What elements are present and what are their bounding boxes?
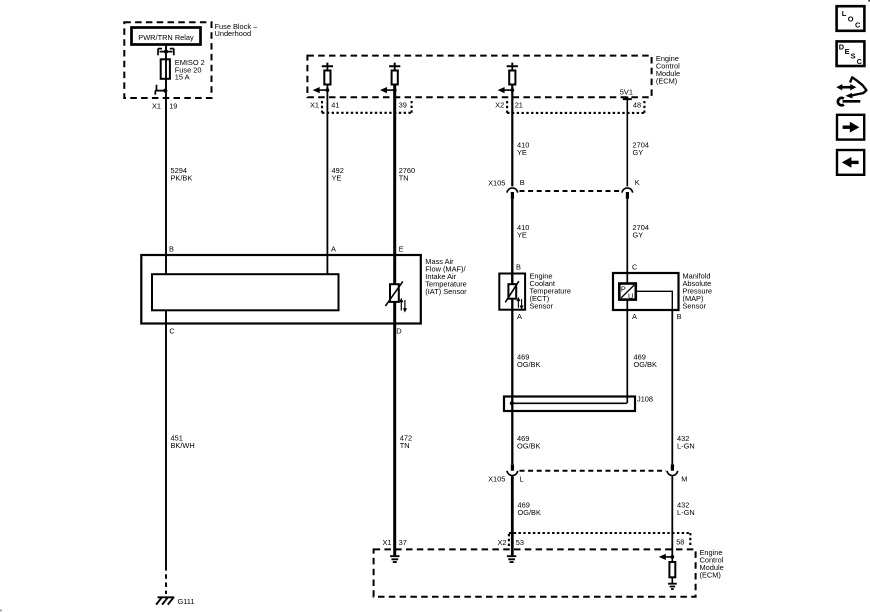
- svg-text:GY: GY: [633, 231, 644, 240]
- nav button back: [837, 150, 864, 175]
- wire 410 YE upper: [511, 85, 513, 187]
- svg-text:39: 39: [399, 101, 407, 110]
- ground at pin 37: [390, 556, 399, 562]
- svg-text:A: A: [331, 245, 336, 254]
- dashed line X105 lower: [520, 470, 667, 472]
- svg-text:X1: X1: [152, 101, 161, 110]
- svg-text:YE: YE: [332, 174, 342, 183]
- MAP sensor box: [613, 273, 679, 310]
- svg-text:M: M: [681, 475, 687, 484]
- ECM arrow pin 39: [386, 89, 395, 91]
- svg-text:TN: TN: [399, 174, 409, 183]
- top ECM box: [307, 56, 651, 98]
- wire MAF C down: [165, 310, 167, 566]
- svg-text:OG/BK: OG/BK: [518, 508, 541, 517]
- svg-text:53: 53: [516, 538, 524, 547]
- dashed line X105 upper: [520, 190, 622, 192]
- arrow at pin 58: [665, 556, 673, 558]
- svg-text:B: B: [516, 262, 521, 271]
- svg-text:A: A: [632, 312, 637, 321]
- MAF inner element: [152, 274, 339, 310]
- svg-text:YE: YE: [517, 148, 527, 157]
- svg-text:B: B: [677, 312, 682, 321]
- ECM driver resistor pin 39: [389, 63, 400, 67]
- splice J168: [504, 397, 635, 412]
- svg-text:C: C: [169, 327, 175, 336]
- wire 2704 GY lower: [626, 199, 628, 284]
- svg-text:P: P: [621, 284, 626, 293]
- dashed wire to G111: [165, 566, 167, 594]
- relay terminal: [158, 49, 174, 56]
- fuse block box: [124, 22, 211, 98]
- svg-text:C: C: [857, 57, 863, 66]
- ECT sensor box: [499, 274, 525, 310]
- wire 2760 TN: [393, 85, 396, 285]
- nav button next: [837, 115, 864, 140]
- fuse EMISO 2: [161, 59, 170, 79]
- wire MAF D down 472 TN: [393, 302, 396, 556]
- wire MAP A down to J168: [626, 300, 628, 404]
- svg-text:OG/BK: OG/BK: [517, 360, 540, 369]
- nav button DESC: [837, 41, 865, 66]
- svg-text:K: K: [635, 178, 640, 187]
- svg-text:X2: X2: [497, 538, 506, 547]
- svg-text:L: L: [842, 9, 847, 18]
- svg-text:C: C: [632, 262, 638, 271]
- ECM internal resistor pin 58: [671, 557, 673, 562]
- connector terminal at fuse block exit: [155, 85, 165, 95]
- svg-text:B: B: [169, 245, 174, 254]
- svg-text:L-GN: L-GN: [677, 442, 695, 451]
- svg-text:BK/WH: BK/WH: [171, 441, 195, 450]
- svg-text:15 A: 15 A: [175, 73, 190, 82]
- wire ECT B: [511, 199, 513, 284]
- ECT thermistor: [508, 284, 516, 299]
- svg-text:(IAT) Sensor: (IAT) Sensor: [425, 287, 467, 296]
- wire MAP B down 432 L-GN: [671, 310, 673, 464]
- wire ECT A down 469 OG/BK: [511, 299, 513, 465]
- svg-text:PK/BK: PK/BK: [171, 174, 193, 183]
- svg-text:YE: YE: [517, 231, 527, 240]
- svg-text:X105: X105: [488, 475, 505, 484]
- wire 469 OG/BK to X2 53: [511, 476, 514, 550]
- svg-text:G111: G111: [178, 597, 195, 606]
- svg-text:37: 37: [399, 538, 407, 547]
- svg-text:48: 48: [633, 101, 641, 110]
- svg-text:O: O: [848, 15, 854, 24]
- MAP P/U transducer: [619, 284, 636, 300]
- svg-text:OG/BK: OG/BK: [517, 442, 540, 451]
- svg-text:TN: TN: [400, 441, 410, 450]
- ECM driver resistor pin 41: [322, 63, 333, 67]
- MAF/IAT sensor box: [141, 255, 421, 324]
- wire 410 YE lower: [511, 199, 513, 285]
- svg-text:OG/BK: OG/BK: [634, 360, 657, 369]
- svg-text:19: 19: [169, 101, 177, 110]
- corner mark: [868, 0, 870, 2]
- MAF IAT thermistor: [390, 284, 399, 302]
- svg-text:Sensor: Sensor: [530, 302, 554, 311]
- nav button LOC: [837, 6, 865, 31]
- wire fuse to X1 19 and MAF pin B: [165, 79, 167, 274]
- svg-text:41: 41: [331, 101, 339, 110]
- bottom ECM box: [374, 549, 696, 596]
- wire 2704 GY upper: [626, 99, 628, 186]
- svg-text:L-GN: L-GN: [677, 508, 695, 517]
- scan speck bottom-left: [0, 610, 2, 612]
- ground at pin 53: [511, 550, 514, 555]
- svg-text:(ECM): (ECM): [656, 77, 677, 86]
- svg-text:5V1: 5V1: [620, 88, 633, 97]
- svg-text:X1: X1: [382, 538, 391, 547]
- svg-text:D: D: [396, 327, 401, 336]
- wire 432 L-GN to pin 58: [671, 476, 673, 557]
- svg-text:GY: GY: [633, 148, 644, 157]
- nav icon schematic tool: [836, 77, 866, 105]
- svg-text:E: E: [399, 245, 404, 254]
- svg-text:A: A: [517, 312, 522, 321]
- svg-text:U: U: [628, 292, 633, 301]
- ground G111: [156, 597, 174, 605]
- dotted bracket X1 pins: [322, 101, 412, 113]
- svg-text:Sensor: Sensor: [683, 302, 707, 311]
- svg-text:X2: X2: [495, 101, 504, 110]
- svg-text:(ECM): (ECM): [700, 570, 721, 579]
- svg-text:X1: X1: [310, 101, 319, 110]
- svg-text:Underhood: Underhood: [215, 29, 252, 38]
- svg-text:E: E: [845, 47, 850, 56]
- wire 492 YE: [326, 85, 328, 275]
- ground at pin 58: [668, 584, 677, 589]
- svg-text:PWR/TRN Relay: PWR/TRN Relay: [138, 33, 194, 42]
- svg-text:J108: J108: [637, 395, 653, 404]
- ECM arrow pin 41: [319, 89, 328, 91]
- dotted bracket X2 pins bottom: [509, 533, 690, 546]
- svg-text:C: C: [855, 20, 861, 29]
- ECM arrow pin 21: [503, 89, 512, 91]
- svg-text:21: 21: [515, 101, 523, 110]
- relay PWR/TRN: [132, 28, 201, 45]
- wire relay to fuse: [165, 45, 167, 59]
- svg-text:58: 58: [676, 538, 684, 547]
- svg-text:X105: X105: [488, 178, 505, 187]
- svg-text:L: L: [520, 475, 524, 484]
- svg-text:S: S: [851, 52, 856, 61]
- ECM driver resistor pin 21: [507, 63, 518, 67]
- MAP internal wire to pin B: [636, 291, 673, 310]
- svg-text:B: B: [520, 178, 525, 187]
- dotted bracket X2 pins: [507, 101, 644, 113]
